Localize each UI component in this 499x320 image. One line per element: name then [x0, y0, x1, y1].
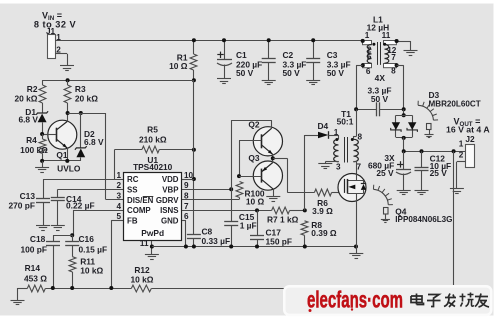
svg-text:20 kΩ: 20 kΩ — [75, 94, 98, 104]
svg-text:6: 6 — [366, 67, 371, 76]
svg-text:50:1: 50:1 — [337, 116, 354, 126]
svg-text:J2: J2 — [465, 134, 475, 144]
svg-text:50 V: 50 V — [371, 94, 389, 104]
svg-text:R12: R12 — [134, 265, 150, 275]
svg-text:50 V: 50 V — [327, 68, 345, 78]
svg-text:FB: FB — [127, 216, 138, 225]
svg-text:VDD: VDD — [162, 175, 179, 184]
svg-text:R3: R3 — [75, 84, 86, 94]
svg-text:C13: C13 — [20, 191, 36, 201]
svg-text:1: 1 — [116, 171, 121, 180]
svg-text:R2: R2 — [27, 84, 38, 94]
svg-text:4X: 4X — [375, 73, 386, 83]
svg-text:GDRV: GDRV — [156, 196, 179, 205]
svg-text:R4: R4 — [26, 135, 37, 145]
svg-text:5: 5 — [367, 53, 372, 62]
svg-text:C18: C18 — [30, 234, 46, 244]
svg-text:R7 1 kΩ: R7 1 kΩ — [267, 215, 299, 225]
svg-text:TPS40210: TPS40210 — [133, 162, 173, 172]
svg-text:Q2: Q2 — [248, 119, 260, 129]
svg-text:7: 7 — [184, 202, 189, 211]
svg-text:10 Ω: 10 Ω — [246, 196, 265, 206]
svg-text:6.8 V: 6.8 V — [18, 115, 38, 125]
svg-text:10 Ω: 10 Ω — [169, 61, 188, 71]
svg-text:IPP084N06L3G: IPP084N06L3G — [395, 215, 452, 224]
svg-text:3: 3 — [336, 163, 341, 172]
svg-text:10: 10 — [184, 171, 194, 180]
svg-text:6.8 V: 6.8 V — [84, 137, 104, 147]
svg-text:1: 1 — [459, 140, 464, 149]
svg-text:150 pF: 150 pF — [266, 236, 293, 246]
svg-text:210 kΩ: 210 kΩ — [139, 134, 167, 144]
svg-text:PwPd: PwPd — [141, 228, 164, 238]
svg-text:100 pF: 100 pF — [20, 244, 47, 254]
svg-text:0.22 µF: 0.22 µF — [66, 201, 95, 211]
svg-text:ISNS: ISNS — [160, 206, 178, 215]
svg-text:VBP: VBP — [162, 186, 178, 195]
svg-text:SS: SS — [127, 186, 138, 195]
svg-text:25 V: 25 V — [376, 168, 394, 178]
svg-text:25 V: 25 V — [430, 168, 448, 178]
svg-text:Q1: Q1 — [56, 150, 68, 160]
svg-text:Q3: Q3 — [248, 153, 260, 163]
svg-text:D4: D4 — [317, 121, 328, 131]
svg-text:0.15 µF: 0.15 µF — [79, 244, 108, 254]
svg-text:8: 8 — [391, 67, 396, 76]
svg-text:2: 2 — [459, 150, 464, 159]
svg-text:50 V: 50 V — [236, 68, 254, 78]
svg-text:DIS/EN: DIS/EN — [127, 196, 154, 205]
svg-text:10 kΩ: 10 kΩ — [80, 265, 103, 275]
svg-text:3.9 Ω: 3.9 Ω — [312, 206, 333, 216]
svg-text:R14: R14 — [25, 263, 41, 273]
svg-text:270 pF: 270 pF — [8, 201, 35, 211]
svg-text:20 kΩ: 20 kΩ — [14, 94, 37, 104]
svg-text:MBR20L60CT: MBR20L60CT — [429, 99, 481, 108]
svg-text:11: 11 — [140, 239, 149, 248]
svg-text:11: 11 — [382, 31, 391, 40]
svg-text:4: 4 — [116, 202, 121, 211]
svg-text:0.39 Ω: 0.39 Ω — [311, 228, 337, 238]
svg-text:2: 2 — [116, 181, 121, 190]
svg-text:GND: GND — [161, 216, 179, 225]
svg-text:COMP: COMP — [127, 206, 151, 215]
svg-text:8 to 32 V: 8 to 32 V — [34, 20, 77, 30]
svg-text:C16: C16 — [79, 234, 95, 244]
svg-text:100 kΩ: 100 kΩ — [20, 145, 48, 155]
svg-text:7: 7 — [357, 163, 362, 172]
svg-text:elecfans·com: elecfans·com — [307, 287, 403, 313]
svg-text:453 Ω: 453 Ω — [24, 274, 47, 284]
svg-text:1: 1 — [365, 31, 370, 40]
svg-text:7: 7 — [391, 53, 396, 62]
svg-text:10 kΩ: 10 kΩ — [130, 275, 153, 285]
svg-text:6: 6 — [184, 212, 189, 221]
svg-text:9: 9 — [184, 181, 189, 190]
svg-text:50 V: 50 V — [283, 68, 301, 78]
svg-text:1 µF: 1 µF — [240, 220, 257, 230]
svg-text:0.33 µF: 0.33 µF — [202, 236, 231, 246]
svg-text:UVLO: UVLO — [57, 163, 81, 173]
svg-text:RC: RC — [127, 175, 139, 184]
svg-text:5: 5 — [116, 212, 121, 221]
svg-text:R5: R5 — [147, 125, 158, 135]
